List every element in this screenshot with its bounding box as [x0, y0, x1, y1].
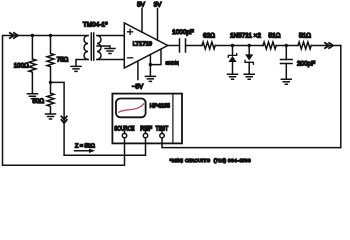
panel divider: [172, 94, 174, 144]
ground (50 ohm): [46, 114, 56, 119]
gnd pin + shdn tie: [149, 55, 151, 76]
svg-text:LT1719: LT1719: [133, 41, 152, 47]
wire: secondary center tap: [97, 46, 110, 48]
svg-text:TM04-1*: TM04-1*: [83, 21, 108, 28]
svg-text:62Ω: 62Ω: [203, 33, 215, 40]
resistor 51 ohm (second): [298, 42, 311, 49]
wire: secondary top to +in: [97, 35, 124, 37]
svg-text:SHDN: SHDN: [166, 60, 179, 65]
resistor 51 ohm (first): [263, 42, 276, 49]
terminal REF: [145, 132, 147, 134]
svg-text:*MINI CIRCUITS (718) 934-4500: *MINI CIRCUITS (718) 934-4500: [170, 158, 251, 164]
wire shdn pin: [150, 49, 161, 64]
wire: output row to right edge: [311, 45, 341, 47]
core: [91, 33, 93, 60]
output chevrons: [325, 43, 329, 48]
svg-text:5V: 5V: [137, 2, 146, 9]
resistor 75 ohm: [47, 36, 54, 83]
ground (D1): [228, 74, 238, 79]
ground (gnd pin): [145, 76, 155, 81]
resistor 62 ohm: [202, 42, 215, 49]
capacitor 1000pF: [180, 39, 186, 52]
arrow under Z label: [75, 150, 91, 152]
ground (200pF): [281, 79, 291, 84]
-5V supply pin: [137, 61, 139, 79]
node: 100 ohm tap: [31, 34, 34, 37]
primary winding: [84, 36, 88, 60]
ground (secondary tap): [105, 49, 115, 54]
svg-text:75Ω: 75Ω: [57, 57, 69, 64]
secondary winding: [97, 36, 101, 60]
wire: primary bottom to ground: [76, 60, 88, 67]
svg-text:51Ω: 51Ω: [299, 33, 311, 40]
wire: secondary bottom to -in: [97, 59, 124, 61]
svg-text:HP4195: HP4195: [150, 104, 170, 110]
svg-text:100Ω: 100Ω: [14, 62, 29, 69]
svg-text:3V: 3V: [154, 2, 163, 9]
svg-text:−5V: −5V: [132, 84, 144, 91]
terminal SOURCE: [124, 132, 126, 134]
node diode D2: [248, 44, 251, 47]
screen: [116, 99, 146, 118]
wire cap to 62 ohm: [186, 45, 203, 47]
ground (100 ohm): [27, 94, 37, 99]
wire: output to cap: [168, 45, 180, 47]
wire to 200pF node: [276, 45, 298, 47]
terminal TEST: [161, 132, 163, 134]
resistor 100 ohm: [29, 36, 36, 94]
3V supply pin: [157, 9, 159, 41]
node: 75 ohm tap: [49, 34, 52, 37]
diode D1 (schottky, pointing up): [232, 46, 234, 56]
5V supply pin: [141, 9, 143, 33]
input signal chevrons: [10, 33, 14, 38]
ground (primary): [71, 66, 81, 71]
node: 75/50 junction: [49, 81, 52, 84]
node diode D1: [231, 44, 234, 47]
capacitor 200pF: [285, 46, 287, 60]
diode D2 (schottky, pointing down): [248, 46, 250, 55]
svg-text:1000pF: 1000pF: [172, 29, 194, 36]
svg-text:200pF: 200pF: [297, 61, 315, 68]
node 200pF: [285, 44, 288, 47]
svg-text:50Ω: 50Ω: [32, 98, 44, 105]
screen trace: [119, 104, 144, 112]
chevrons down on REF line: [61, 116, 66, 119]
resistor 50 ohm: [47, 82, 54, 113]
svg-text:51Ω: 51Ω: [269, 33, 281, 40]
wire: REF return (junction right, down, to REF terminal): [51, 82, 146, 155]
comparator U1 LT1719: [124, 23, 167, 68]
wire 62 ohm to diodes: [215, 45, 263, 47]
wire: TEST return (right edge down to TEST terminal): [162, 46, 341, 148]
ground (D2): [244, 74, 254, 79]
svg-text:Z = 50Ω: Z = 50Ω: [75, 143, 95, 149]
svg-text:1N5711 ×2: 1N5711 ×2: [230, 33, 261, 40]
wire: SOURCE loop (terminal down, bottom, left edge, top input row): [3, 36, 125, 166]
instrument HP4195 box: [112, 94, 182, 144]
